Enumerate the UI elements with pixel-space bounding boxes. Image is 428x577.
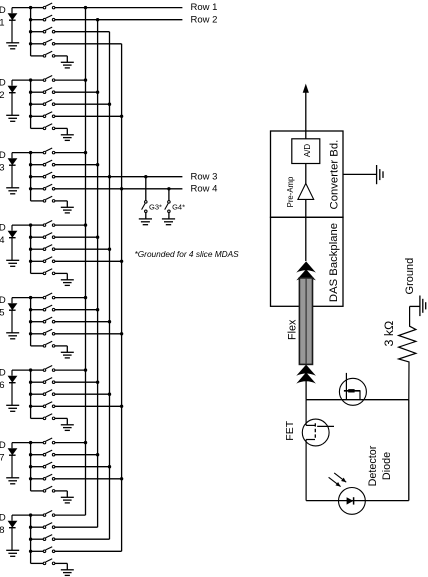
wire D6-S5 to ground [55,417,67,419]
wire junction column D2 [29,78,32,128]
wire D1 anode to switch column [12,7,31,9]
wire D6-S4 to column bus [55,405,122,407]
block A/D converter U-AD [292,139,320,164]
switch D3-S5 [31,196,55,202]
wire junction column D7 [29,441,32,491]
wire D1-S5 to ground [55,55,67,57]
wire detector diode loop right [408,400,410,501]
wire D5-S2 to column bus [55,309,98,311]
wire D8-S3 to column bus [55,538,110,540]
ground (detector bias) [420,296,426,317]
node signal output arrow [303,84,309,93]
wire Row 1 bus (vertical column) [85,8,87,515]
wire D4-S2 to column bus [55,236,98,238]
switch D5-S2 [31,305,55,311]
ground (D4-S5) [61,280,74,286]
switch D2-S1 [31,76,55,82]
switch D3-S2 [31,160,55,166]
svg-text:Ground: Ground [404,258,416,295]
svg-text:D: D [0,222,6,233]
wire A/D to pre-amp [305,164,307,184]
svg-text:Row 3: Row 3 [191,171,218,182]
ground (diode D8) [6,550,19,556]
wire output to A/D [305,91,307,139]
diode D5 [8,298,18,333]
svg-text:D: D [0,440,6,451]
svg-text:8: 8 [0,525,4,536]
svg-text:2: 2 [0,90,4,101]
switch D4-S1 [31,221,55,227]
op-amp Pre-Amp triangle [298,183,314,199]
switch D7-S1 [31,438,55,444]
svg-text:FET: FET [284,420,296,440]
cable Flex (ribbon) [299,278,312,365]
block Converter Bd box [271,131,344,217]
switch D5-S3 [31,317,55,323]
wire converter ground stub [343,173,377,175]
wire D3-S5 to ground [55,200,67,202]
svg-text:3 kΩ: 3 kΩ [382,321,396,347]
wire D8-S5 to ground [55,562,67,564]
svg-text:Row 2: Row 2 [191,14,218,25]
wire junction column D1 [29,6,32,56]
switch D4-S5 [31,269,55,275]
ground (diode D1) [6,43,19,49]
wire D5-S4 to column bus [55,333,122,335]
switch D1-S2 [31,15,55,21]
ground (converter board) [377,165,383,184]
svg-text:D: D [0,150,6,161]
switch D7-S3 [31,462,55,468]
wire D2-S1 to column bus [55,79,86,81]
connector chevrons (detector end) [296,365,316,384]
wire D2-S4 to column bus [55,115,122,117]
wire D4-S3 to column bus [55,248,110,250]
svg-text:Row 1: Row 1 [191,2,218,13]
switch D3-S1 [31,148,55,154]
wire D8 anode to switch column [12,514,31,516]
svg-text:Detector: Detector [367,445,379,486]
wire D7-S4 to column bus [55,478,122,480]
wire D4 anode to switch column [12,224,31,226]
switch D5-S1 [31,293,55,299]
ground (G4*) [162,219,175,225]
switch D3-S3 [31,172,55,178]
svg-text:DAS Backplane: DAS Backplane [328,223,340,302]
wire D2 anode to switch column [12,79,31,81]
wire D7-S1 to column bus [55,442,86,444]
svg-text:Pre-Amp: Pre-Amp [286,176,295,207]
diode D7 [8,443,18,478]
diode D8 [8,515,18,550]
ground (D2-S5) [61,135,74,141]
switch D1-S4 [31,39,55,45]
wire D8-S2 to column bus [55,526,98,528]
svg-text:D: D [0,512,6,523]
wire D7-S2 to column bus [55,454,98,456]
ground (D7-S5) [61,497,74,503]
wire D4-S5 to ground [55,272,67,274]
switch D2-S3 [31,100,55,106]
switch D6-S3 [31,390,55,396]
wire D3-S3 to column bus [55,176,182,178]
wire D5-S3 to column bus [55,321,110,323]
wire D2-S2 to column bus [55,91,98,93]
svg-text:7: 7 [0,453,4,464]
wire detector node to bias node [306,399,409,401]
switch D4-S4 [31,257,55,263]
svg-text:D: D [0,295,6,306]
switch D3-S4 [31,184,55,190]
wire D4-S4 to column bus [55,260,122,262]
wire Row 2 bus (vertical column) [97,20,99,528]
transistor Q1 [339,373,366,405]
wire D6-S3 to column bus [55,393,110,395]
wire Row 3 bus (vertical column) [109,32,111,540]
ground (diode D5) [6,333,19,339]
switch D2-S2 [31,88,55,94]
wire D3-S1 to column bus [55,152,86,154]
ground (diode D6) [6,405,19,411]
wire junction column D5 [29,296,32,346]
diode D2 [8,80,18,115]
svg-text:G4*: G4* [172,202,185,211]
wire D7-S3 to column bus [55,466,110,468]
switch D8-S4 [31,547,55,553]
wire D7 anode to switch column [12,442,31,444]
switch D4-S3 [31,245,55,251]
ground (diode D4) [6,260,19,266]
switch D2-S5 [31,124,55,130]
switch D1-S5 [31,51,55,57]
svg-text:4: 4 [0,235,4,246]
diode D6 [8,370,18,405]
switch D7-S2 [31,450,55,456]
diode D4 [8,225,18,260]
switch D1-S1 [31,3,55,9]
resistor R1 43 kOhm [399,306,416,399]
svg-text:D: D [0,5,6,16]
switch D7-S5 [31,486,55,492]
wire D3 anode to switch column [12,152,31,154]
wire D5 anode to switch column [12,297,31,299]
ground (D8-S5) [61,570,74,576]
wire D1-S3 to column bus [55,31,110,33]
switch D1-S3 [31,27,55,33]
switch G4* [165,187,171,219]
svg-text:G3*: G3* [149,202,162,211]
switch D4-S2 [31,233,55,239]
switch D8-S5 [31,559,55,565]
ground (diode D7) [6,478,19,484]
wire D2-S5 to ground [55,127,67,129]
switch D6-S5 [31,414,55,420]
ground (D6-S5) [61,425,74,431]
diode Detector Diode [339,488,366,515]
svg-text:Converter Bd.: Converter Bd. [328,140,340,210]
switch D7-S4 [31,474,55,480]
wire detector diode loop bottom [306,500,409,502]
ground (D3-S5) [61,207,74,213]
svg-text:A/D: A/D [303,144,312,158]
light input arrows [329,473,347,487]
wire D8-S1 to column bus [55,514,86,516]
wire flex to detector node [305,381,307,400]
svg-text:Row 4: Row 4 [191,183,218,194]
wire junction column D4 [29,223,32,273]
svg-text:5: 5 [0,308,4,319]
ground (D5-S5) [61,352,74,358]
connector chevrons (backplane end) [296,261,316,280]
wire D5-S1 to column bus [55,297,86,299]
wire D7-S5 to ground [55,490,67,492]
svg-text:Flex: Flex [286,319,298,340]
svg-text:6: 6 [0,380,4,391]
ground (diode D3) [6,188,19,194]
switch D8-S3 [31,535,55,541]
switch D2-S4 [31,112,55,118]
switch D6-S4 [31,402,55,408]
wire D4-S1 to column bus [55,224,86,226]
svg-text:3: 3 [0,163,4,174]
wire Row 4 bus (vertical column) [121,44,123,552]
switch D8-S2 [31,523,55,529]
wire D1-S2 to column bus [55,19,182,21]
switch D5-S5 [31,341,55,347]
ground (G3*) [139,219,152,225]
diode D3 [8,153,18,188]
wire D6 anode to switch column [12,369,31,371]
switch D6-S2 [31,378,55,384]
svg-text:*Grounded for 4 slice MDAS: *Grounded for 4 slice MDAS [135,249,240,259]
wire D6-S2 to column bus [55,381,98,383]
wire D8-S4 to column bus [55,550,122,552]
wire D3-S2 to column bus [55,164,98,166]
ground (D1-S5) [61,62,74,68]
wire D2-S3 to column bus [55,103,110,105]
wire resistor to ground [410,305,420,307]
svg-text:D: D [0,77,6,88]
block DAS Backplane box [271,217,344,306]
ground (diode D2) [6,115,19,121]
wire D1-S4 to column bus [55,43,122,45]
wire D6-S1 to column bus [55,369,86,371]
switch G3* [142,175,148,219]
transistor FET [302,400,334,501]
switch D8-S1 [31,511,55,517]
switch D5-S4 [31,329,55,335]
svg-text:Diode: Diode [381,452,393,480]
wire pre-amp input [305,199,307,261]
svg-text:D: D [0,367,6,378]
wire D3-S4 to column bus [55,188,182,190]
wire junction column D3 [29,151,32,201]
wire D1-S1 to column bus [55,7,182,9]
svg-text:1: 1 [0,18,4,29]
diode D1 [8,8,18,43]
switch D6-S1 [31,366,55,372]
wire junction column D8 [29,513,32,563]
wire junction column D6 [29,368,32,418]
wire D5-S5 to ground [55,345,67,347]
